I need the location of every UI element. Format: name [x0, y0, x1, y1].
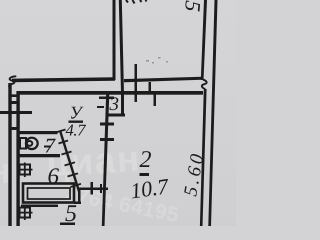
svg-text:2: 2: [139, 147, 151, 173]
svg-text:циан: циан: [45, 138, 141, 184]
svg-text:10.7: 10.7: [129, 173, 171, 203]
svg-text:5: 5: [180, 0, 206, 13]
svg-text:5.60: 5.60: [180, 150, 209, 198]
svg-text:7: 7: [44, 133, 56, 157]
svg-text:6: 6: [47, 163, 59, 188]
svg-text:3: 3: [108, 94, 119, 115]
svg-text:5: 5: [65, 201, 77, 226]
svg-text:У: У: [69, 102, 83, 122]
svg-text:4.7: 4.7: [65, 120, 86, 139]
